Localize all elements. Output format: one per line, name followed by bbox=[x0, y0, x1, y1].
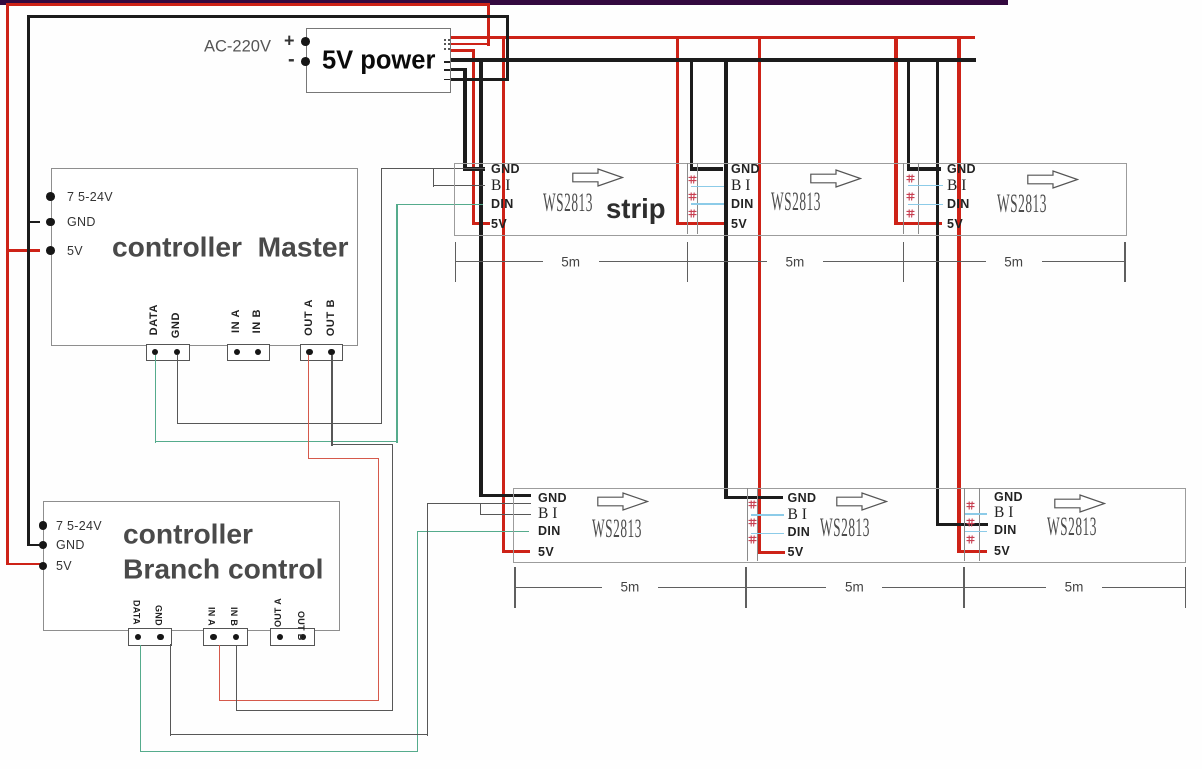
wire +5V drop strip1 seg2 vertical bbox=[676, 36, 679, 225]
label AC-220V bbox=[204, 37, 271, 56]
wire GND main bus bbox=[450, 58, 976, 62]
wire data Branch DATA down bbox=[140, 645, 141, 752]
controller Branch box bbox=[43, 501, 340, 632]
controller Master box bbox=[51, 168, 359, 346]
Branch label 5V bbox=[56, 559, 72, 573]
strip1 seg3 direction arrow bbox=[1027, 170, 1079, 189]
strip1 seg2 label 5V bbox=[731, 217, 747, 231]
Branch pin dot IN B bbox=[233, 634, 239, 640]
label minus sign bbox=[288, 48, 295, 71]
Master 5V terminal dot bbox=[46, 246, 55, 255]
wire gnd Branch GND across bbox=[170, 734, 428, 735]
wire +5V drop strip2 seg3 vertical bbox=[957, 36, 960, 554]
wire GND frame top horizontal bbox=[27, 15, 509, 18]
strip2 seg3 label BI bbox=[994, 504, 1013, 522]
wire OUTB down bbox=[331, 355, 332, 446]
Branch GND terminal dot bbox=[39, 541, 48, 550]
strip2 dimension span 1 line left bbox=[514, 587, 602, 588]
Branch 5V terminal dot bbox=[39, 562, 48, 571]
strip2 connector3 blue BI bbox=[965, 513, 987, 514]
wire GND corner to Branch GND bbox=[27, 544, 44, 547]
strip2 seg2 label BI bbox=[788, 506, 807, 524]
strip1 seg1 direction arrow bbox=[572, 168, 624, 187]
strip1 seg2 label GND bbox=[731, 162, 760, 176]
strip1 seg1 label GND bbox=[491, 162, 520, 176]
wire GND feed strip1 seg1 bbox=[450, 68, 467, 71]
strip2 connector3 left line bbox=[964, 488, 965, 561]
Branch pin block OUTA/OUTB bbox=[270, 628, 315, 646]
strip1 seg1 label BI bbox=[491, 177, 510, 195]
Branch pin block INA/INB bbox=[203, 628, 247, 646]
wire GND drop strip1 seg1 vertical bbox=[463, 68, 466, 171]
strip1 dimension span 1 5m label bbox=[561, 254, 580, 269]
Branch label GND bbox=[56, 538, 85, 552]
wire +5V power out to riser bbox=[450, 43, 490, 46]
strip2 dimension tick 3 bbox=[963, 567, 964, 608]
Master label GND bbox=[67, 215, 96, 229]
wire OUTA down bbox=[308, 355, 309, 459]
strip2 seg2 label DIN bbox=[788, 525, 811, 539]
wire jog2 to BI horizontal bbox=[480, 514, 531, 515]
wire OUTB long down bbox=[392, 444, 393, 711]
wire OUTA long down bbox=[378, 458, 379, 701]
strip1 connector2 right line bbox=[697, 163, 698, 234]
Branch pin dot DATA bbox=[135, 634, 141, 640]
strip2 dimension tick 4 bbox=[1185, 567, 1186, 608]
Master label 5V bbox=[67, 244, 83, 258]
wire gnd Master GND across bbox=[177, 423, 382, 424]
Master pin label OUT B bbox=[325, 299, 337, 336]
wire gnd Master GND to strip bbox=[381, 168, 485, 169]
Branch pin label OUT B bbox=[296, 611, 306, 641]
strip1 seg2 WS2813 text bbox=[771, 187, 821, 217]
strip2 dimension span 3 5m label bbox=[1065, 580, 1084, 595]
strip2 seg2 label GND bbox=[788, 491, 817, 505]
wire GND drop strip2 seg2 turn bbox=[724, 496, 783, 499]
wire GND frame riser at x507 bbox=[506, 15, 509, 81]
strip row1 outline bbox=[454, 163, 1127, 236]
Branch pin label GND bbox=[154, 605, 164, 626]
Master pin dot IN B bbox=[255, 349, 261, 355]
strip1 dimension span 2 5m label bbox=[785, 254, 804, 269]
strip1 dimension span 2 line right bbox=[823, 261, 903, 262]
strip2 dimension span 2 5m label bbox=[845, 580, 864, 595]
strip1 seg2 label BI bbox=[731, 177, 750, 195]
strip2 seg2 WS2813 text bbox=[820, 513, 870, 543]
Master pin label IN A bbox=[230, 309, 242, 333]
strip1 seg3 label DIN bbox=[947, 197, 970, 211]
wire GND drop strip2 seg2 vertical bbox=[724, 58, 727, 500]
strip1 connector3 chinese marks bbox=[906, 174, 915, 183]
wire +5V feed strip1 seg1 bbox=[450, 49, 475, 52]
strip2 dimension span 1 line right bbox=[658, 587, 746, 588]
Master pin dot OUT A bbox=[306, 349, 312, 355]
wire +5V drop strip1 seg2 turn bbox=[676, 222, 725, 225]
strip1 connector3 blue DIN bbox=[908, 204, 943, 205]
wire GND frame left vertical bbox=[27, 15, 30, 547]
wire gnd Branch GND down bbox=[170, 644, 171, 736]
strip1 connector2 blue DIN bbox=[691, 203, 724, 204]
Master title bbox=[112, 231, 349, 264]
wire +5V loop riser at x488 bbox=[487, 3, 490, 46]
strip1 connector2 left line bbox=[687, 163, 688, 234]
Master pin label DATA bbox=[148, 304, 160, 335]
strip1 dimension span 3 5m label bbox=[1004, 254, 1023, 269]
strip2 connector2 blue DIN bbox=[751, 533, 784, 534]
strip1 seg3 label BI bbox=[947, 177, 966, 195]
wire data Master DATA across bbox=[155, 441, 398, 442]
Master pin block DATA/GND bbox=[146, 344, 190, 361]
Branch title line2 bbox=[123, 552, 323, 585]
strip1 connector3 blue BI bbox=[908, 185, 943, 186]
wire jog to BI horizontal bbox=[433, 185, 485, 186]
wire data Master DATA up bbox=[396, 204, 397, 442]
wire GND drop strip2 seg3 turn bbox=[936, 523, 988, 526]
strip1 seg3 WS2813 text bbox=[997, 189, 1047, 219]
Branch 7.5-24V terminal dot bbox=[39, 521, 48, 530]
strip2 seg3 label 5V bbox=[994, 544, 1010, 558]
wire +5V loop left vertical bbox=[6, 3, 9, 565]
Branch pin label IN A bbox=[206, 607, 216, 626]
label 5V power bbox=[322, 46, 435, 75]
strip1 connector3 left line bbox=[903, 163, 904, 234]
wire gnd Branch GND up bbox=[427, 503, 428, 736]
wire OUTA bottom across bbox=[219, 700, 379, 701]
strip2 dimension span 2 line right bbox=[882, 587, 963, 588]
wire GND stub to Master GND bbox=[28, 221, 40, 224]
Master 7.5-24V terminal dot bbox=[46, 192, 55, 201]
wire GND drop strip2 seg1 vertical bbox=[479, 58, 482, 498]
strip2 dimension tick 1 bbox=[514, 567, 515, 608]
power terminal + dot bbox=[301, 37, 310, 46]
wire jog2 to BI vertical bbox=[480, 503, 481, 516]
strip2 connector2 blue BI bbox=[751, 514, 784, 515]
wire OUTB across bbox=[331, 444, 393, 445]
strip2 connector3 blue DIN bbox=[965, 531, 987, 532]
strip1 seg2 direction arrow bbox=[810, 169, 862, 188]
strip2 connector2 left line bbox=[747, 488, 748, 561]
Master label 7.5-24V bbox=[67, 190, 113, 204]
wire data Branch DATA up bbox=[417, 531, 418, 752]
wire data Master DATA down bbox=[155, 355, 156, 443]
strip2 seg3 WS2813 text bbox=[1047, 512, 1097, 542]
strip1 dimension span 3 line left bbox=[903, 261, 986, 262]
Master pin label OUT A bbox=[303, 299, 315, 336]
wire GND drop strip1 seg2 turn bbox=[690, 167, 723, 170]
Branch pin label IN B bbox=[229, 607, 239, 626]
strip2 seg1 label BI bbox=[538, 505, 557, 523]
Branch pin dot OUT B bbox=[300, 634, 306, 640]
strip2 seg3 label GND bbox=[994, 490, 1023, 504]
wire GND drop strip2 seg1 turn bbox=[479, 494, 531, 497]
power terminal - dot bbox=[301, 57, 310, 66]
Branch pin dot IN A bbox=[210, 634, 216, 640]
wire jog to BI vertical bbox=[433, 168, 434, 187]
strip2 seg3 label DIN bbox=[994, 523, 1017, 537]
strip2 seg2 direction arrow bbox=[836, 492, 888, 511]
strip2 seg1 direction arrow bbox=[597, 492, 649, 511]
Master pin dot OUT B bbox=[328, 349, 334, 355]
wire data Branch DATA across bbox=[140, 751, 418, 752]
Branch label 7.5-24V bbox=[56, 519, 102, 533]
wire gnd Master GND up bbox=[381, 168, 382, 424]
strip2 seg1 label DIN bbox=[538, 524, 561, 538]
strip2 dimension span 2 line left bbox=[745, 587, 826, 588]
strip2 dimension tick 2 bbox=[745, 567, 746, 608]
Master pin label IN B bbox=[251, 309, 263, 333]
wire OUTA across bbox=[308, 458, 379, 459]
decorative top purple bar bbox=[0, 0, 1008, 5]
wire +5V drop strip1 seg3 vertical bbox=[894, 36, 897, 225]
wire +5V drop strip2 seg3 turn bbox=[957, 550, 987, 553]
Master pin block INA/INB bbox=[227, 344, 271, 361]
strip2 dimension span 3 line right bbox=[1102, 587, 1185, 588]
wire +5V drop strip1 seg1 vertical bbox=[472, 49, 475, 225]
Branch pin label OUT A bbox=[273, 598, 283, 627]
Branch title line1 bbox=[123, 517, 253, 550]
strip2 seg1 label GND bbox=[538, 491, 567, 505]
wire GND power out to frame riser bbox=[450, 78, 509, 81]
strip2 seg2 label 5V bbox=[788, 545, 804, 559]
strip row2 outline bbox=[513, 488, 1186, 563]
Branch pin dot GND bbox=[157, 634, 163, 640]
strip1 seg3 label GND bbox=[947, 162, 976, 176]
strip2 dimension span 3 line left bbox=[963, 587, 1046, 588]
strip2 seg1 label 5V bbox=[538, 545, 554, 559]
Master pin dot GND bbox=[174, 349, 180, 355]
strip1 connector3 right line bbox=[918, 163, 919, 234]
strip2 dimension span 1 5m label bbox=[621, 580, 640, 595]
strip1 dimension tick 4 bbox=[1124, 242, 1125, 282]
strip2 seg3 direction arrow bbox=[1054, 494, 1106, 513]
Master pin label GND bbox=[170, 312, 182, 338]
strip2 connector2 right line bbox=[757, 488, 758, 561]
strip2 connector2 chinese marks bbox=[748, 500, 757, 509]
Branch pin dot OUT A bbox=[277, 634, 283, 640]
wire OUTB bottom across bbox=[236, 710, 394, 711]
wire GND drop strip1 seg3 turn bbox=[907, 167, 941, 170]
strip1 seg1 WS2813 text bbox=[543, 188, 593, 218]
strip1 dimension span 1 line right bbox=[599, 261, 687, 262]
Master pin dot DATA bbox=[152, 349, 158, 355]
Branch pin label DATA bbox=[131, 600, 141, 625]
wire data Master DATA to DIN bbox=[396, 204, 483, 205]
strip1 seg1 label DIN bbox=[491, 197, 514, 211]
wire +5V drop strip1 seg3 turn bbox=[894, 222, 942, 225]
wire +5V corner to Branch 5V bbox=[6, 563, 44, 566]
label plus sign bbox=[284, 30, 295, 51]
wire GND drop strip1 seg1 turn bbox=[463, 167, 485, 170]
wire GND drop strip2 seg3 vertical bbox=[936, 58, 939, 526]
strip1 seg1 label 5V bbox=[491, 217, 507, 231]
strip1 dimension tick 2 bbox=[687, 242, 688, 282]
wire +5V drop strip2 seg2 turn bbox=[758, 551, 785, 554]
wire +5V top loop horizontal bbox=[6, 3, 490, 6]
strip1 seg2 label DIN bbox=[731, 197, 754, 211]
wire OUTA up to INA bbox=[219, 645, 220, 701]
strip1 seg3 label 5V bbox=[947, 217, 963, 231]
wire GND drop strip1 seg2 vertical bbox=[690, 58, 693, 171]
wire GND drop strip1 seg3 vertical bbox=[907, 58, 910, 171]
strip1 connector2 chinese marks bbox=[688, 175, 697, 184]
wire data Branch DATA to DIN bbox=[417, 531, 529, 532]
wire +5V drop strip2 seg2 vertical bbox=[758, 36, 761, 554]
wire gnd Branch GND to strip bbox=[427, 503, 531, 504]
power output terminal marks bbox=[444, 39, 446, 41]
Master GND terminal dot bbox=[46, 218, 55, 227]
wire OUTB up to INB bbox=[236, 645, 237, 711]
Master pin dot IN A bbox=[234, 349, 240, 355]
wire +5V stub to Master 5V bbox=[6, 249, 40, 252]
Master pin block OUTA/OUTB bbox=[300, 344, 344, 361]
strip1 dimension span 3 line right bbox=[1042, 261, 1125, 262]
strip2 connector3 right line bbox=[979, 488, 980, 561]
strip1 connector2 blue BI bbox=[691, 186, 724, 187]
power supply box bbox=[306, 28, 452, 93]
strip1 dimension tick 3 bbox=[903, 242, 904, 282]
strip1 dimension span 1 line left bbox=[455, 261, 543, 262]
wire +5V drop strip1 seg1 turn bbox=[472, 222, 490, 225]
strip1 dimension tick 1 bbox=[455, 242, 456, 282]
wire +5V drop strip2 seg1 vertical bbox=[502, 36, 505, 553]
strip2 seg1 WS2813 text bbox=[592, 514, 642, 544]
strip1 bold strip text bbox=[606, 193, 666, 225]
wire +5V drop strip2 seg1 turn bbox=[502, 550, 530, 553]
strip2 connector3 chinese marks bbox=[966, 501, 975, 510]
Branch pin block DATA/GND bbox=[128, 628, 173, 646]
wire gnd Master GND down bbox=[177, 355, 178, 424]
strip1 dimension span 2 line left bbox=[687, 261, 767, 262]
wire +5V main bus bbox=[450, 36, 975, 39]
